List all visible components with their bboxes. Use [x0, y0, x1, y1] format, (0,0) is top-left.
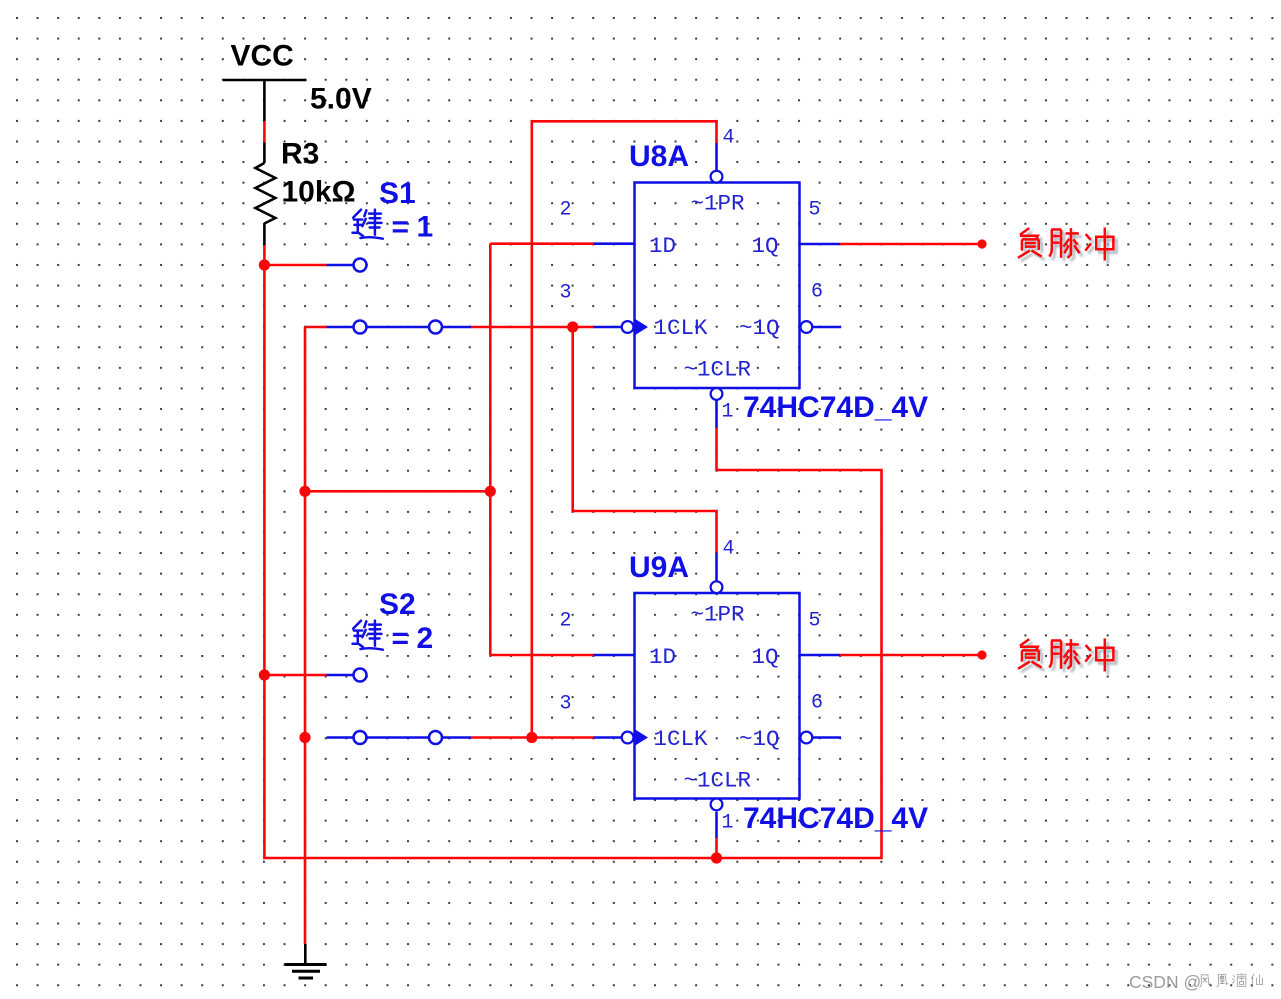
svg-text:1: 1 [722, 401, 734, 424]
svg-text:3: 3 [560, 282, 572, 305]
svg-text:CSDN @: CSDN @ [1129, 972, 1201, 992]
svg-text:10kΩ: 10kΩ [282, 176, 356, 209]
svg-text:1: 1 [417, 211, 434, 244]
svg-text:=: = [392, 211, 410, 244]
svg-text:S1: S1 [379, 177, 416, 210]
svg-text:74HC74D_4V: 74HC74D_4V [743, 391, 928, 424]
svg-text:U8A: U8A [629, 140, 689, 173]
svg-text:VCC: VCC [231, 40, 294, 73]
svg-text:2: 2 [417, 622, 434, 655]
svg-text:~1CLR: ~1CLR [684, 357, 752, 383]
svg-text:~1Q: ~1Q [739, 315, 780, 341]
svg-text:1: 1 [722, 812, 734, 835]
svg-text:S2: S2 [379, 588, 416, 621]
svg-text:1Q: 1Q [752, 233, 779, 259]
svg-text:4: 4 [723, 538, 735, 561]
svg-text:1D: 1D [649, 233, 676, 259]
svg-text:5: 5 [809, 610, 821, 633]
svg-text:~1PR: ~1PR [691, 602, 745, 628]
svg-text:2: 2 [560, 610, 572, 633]
svg-text:74HC74D_4V: 74HC74D_4V [743, 802, 928, 835]
svg-text:~1CLR: ~1CLR [684, 768, 752, 794]
svg-text:6: 6 [811, 281, 823, 304]
svg-text:1CLK: 1CLK [654, 726, 709, 752]
svg-text:5: 5 [809, 199, 821, 222]
svg-text:~1PR: ~1PR [691, 191, 745, 217]
svg-text:R3: R3 [281, 138, 319, 171]
svg-text:~1Q: ~1Q [739, 726, 780, 752]
svg-text:6: 6 [811, 692, 823, 715]
svg-text:4: 4 [723, 127, 735, 150]
svg-text:=: = [392, 622, 410, 655]
svg-text:2: 2 [560, 199, 572, 222]
svg-text:5.0V: 5.0V [310, 83, 372, 116]
svg-text:1CLK: 1CLK [654, 315, 709, 341]
svg-text:1Q: 1Q [752, 644, 779, 670]
svg-text:1D: 1D [649, 644, 676, 670]
svg-text:3: 3 [560, 693, 572, 716]
svg-text:U9A: U9A [629, 551, 689, 584]
